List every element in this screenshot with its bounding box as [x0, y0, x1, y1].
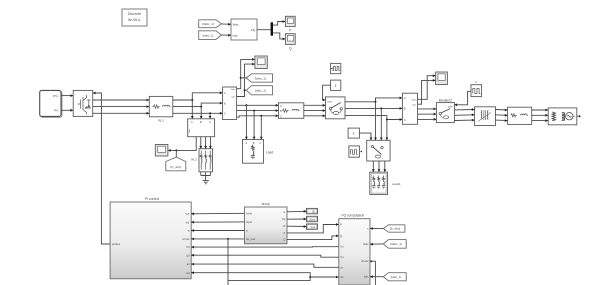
wire PQ to demux: [257, 29, 271, 31]
svg-text:Vdref: Vdref: [246, 212, 252, 215]
wire Vabc_1 to PQ subsystem: [221, 23, 231, 26]
svg-text:C: C: [224, 113, 226, 116]
wire breaker1 c to meas2 with bend down: [345, 116, 402, 121]
scope4: [436, 72, 448, 85]
wire gate g from PI control pulses: [93, 92, 110, 244]
svg-text:Q: Q: [340, 235, 342, 238]
wire PQ comp wh-dw output down: [370, 260, 375, 285]
wire bus phase C bridge to RL2: [93, 112, 150, 115]
RL3 filter branch: [191, 149, 212, 172]
wire tap phase C down to current measurement: [209, 113, 212, 119]
three-phase series RL branch 4: [508, 107, 532, 124]
svg-text:5e-06 s.: 5e-06 s.: [128, 18, 141, 22]
wire phase b meas1 to RL mid with load tap: [237, 109, 279, 112]
svg-text:Uf: Uf: [283, 225, 286, 228]
svg-text:PQ computation: PQ computation: [341, 214, 364, 218]
three-phase breaker (vertical, to Load1): [367, 140, 390, 161]
wire tap b down to breaker3: [380, 108, 383, 140]
wire wh-dw vertical down: [227, 239, 229, 285]
wire droop to display3: [287, 225, 307, 228]
Load1 block: [370, 172, 402, 194]
svg-text:C: C: [280, 115, 282, 118]
wire PV- to bridge: [61, 109, 73, 112]
wires RL4 to source: [532, 109, 549, 122]
wire demux to scope Q: [273, 33, 285, 40]
goto tag Ic_abc (up): [166, 157, 186, 171]
svg-text:Iabc: Iabc: [233, 33, 239, 37]
svg-text:[Iabc_1]: [Iabc_1]: [255, 89, 266, 93]
wire meas2 a to breaker2: [418, 108, 437, 111]
wire constant to breaker1 com: [323, 85, 331, 101]
pulse generator 1 (unconnected): [331, 63, 341, 73]
svg-text:com: com: [448, 106, 453, 109]
svg-text:pulses: pulses: [112, 242, 121, 246]
wire meas2 b to breaker2: [418, 113, 437, 116]
svg-text:Load1.: Load1.: [392, 182, 401, 186]
wire PQ port4 to PI row6: [191, 254, 339, 257]
svg-text:[Vabc_1]: [Vabc_1]: [390, 242, 402, 246]
wire PQ port6 to PI row8: [191, 271, 310, 277]
svg-text:RL2: RL2: [158, 118, 164, 122]
ground symbol: [203, 181, 209, 184]
Breaker2 label: [439, 99, 452, 103]
svg-text:Vqref: Vqref: [246, 221, 252, 224]
wire meas to RL3 phase a: [199, 137, 202, 149]
from tag Ic_abc (right): [383, 225, 405, 232]
svg-text:com: com: [327, 100, 332, 103]
svg-text:[Vabc_1]: [Vabc_1]: [202, 22, 214, 26]
svg-text:2e3: 2e3: [311, 225, 316, 229]
wire PQ port3 to PI row5: [191, 246, 339, 249]
svg-text:1: 1: [353, 132, 355, 136]
PQ measure subsystem U-PQ: [231, 19, 257, 40]
svg-text:[Iabc_1]: [Iabc_1]: [203, 33, 214, 37]
wire tap phase B down to current measurement: [200, 107, 203, 119]
source output stub: [577, 115, 581, 118]
wire load tap A: [245, 105, 248, 139]
wire meas2 Vabc to scope4: [418, 74, 436, 99]
svg-text:1: 1: [335, 84, 337, 88]
three-phase source: [548, 108, 577, 125]
wire meas to RL3 phase c: [209, 137, 212, 149]
wire Iabc_1 to PQ subsystem: [221, 34, 231, 37]
constant 1 for breaker3: [348, 128, 359, 138]
svg-text:20e3: 20e3: [309, 217, 315, 221]
display block 1: [307, 208, 318, 213]
wire Iabc signal to scope and goto tag: [237, 63, 255, 97]
svg-text:wt: wt: [340, 266, 343, 269]
svg-text:RL3: RL3: [191, 158, 197, 162]
wire bus phase B bridge to RL2: [93, 105, 150, 108]
svg-text:Breaker2: Breaker2: [439, 99, 452, 103]
wire RL mid to breaker1 phase c: [304, 114, 326, 117]
wire phase c meas1 to RL mid with load tap: [237, 114, 279, 117]
pulse generator for breaker2: [471, 80, 482, 97]
svg-text:[Iabc_1]: [Iabc_1]: [391, 275, 402, 279]
constant 1 for breaker1: [331, 80, 341, 90]
svg-text:Load: Load: [266, 151, 273, 155]
From tag Vabc_1 (top): [199, 20, 222, 28]
svg-text:Q: Q: [289, 46, 292, 50]
wires breaker3 to Load1: [372, 161, 386, 172]
three-phase current measurement (rotated): [188, 119, 215, 137]
svg-text:PV+: PV+: [53, 94, 59, 98]
svg-text:Discrete: Discrete: [128, 12, 141, 16]
svg-text:C: C: [209, 121, 211, 124]
display block 2: [307, 216, 318, 221]
svg-text:wh-dw: wh-dw: [361, 260, 368, 263]
svg-text:Iabc: Iabc: [364, 276, 369, 279]
svg-text:[Ic_abc]: [Ic_abc]: [171, 165, 182, 169]
three-phase breaker 1: [326, 97, 346, 119]
display block 3: [307, 224, 318, 229]
wire meas2 c to breaker2: [418, 118, 437, 121]
svg-text:C: C: [404, 119, 406, 122]
goto tag Vabc_1: [246, 74, 272, 82]
wires transformer to RL4: [496, 109, 508, 122]
wire droop w to PI row3: [191, 229, 244, 232]
pulse generator 2 (near breaker3): [349, 146, 362, 157]
wires RL3 to ground: [201, 172, 211, 181]
svg-text:Vabc: Vabc: [363, 243, 369, 246]
wire tap phase A down to current measurement: [191, 100, 194, 119]
PV array block: [40, 90, 62, 117]
svg-text:Q: Q: [283, 239, 285, 242]
three-phase series RL branch RL2: [149, 96, 173, 122]
wire phase a meas1 to RL mid with load tap: [237, 104, 279, 107]
wire wh-dw bottom run to PQ comp port6: [228, 276, 339, 281]
wire breaker1 a to meas2 with bend up: [345, 97, 402, 103]
from tag Iabc_1 (right): [383, 273, 406, 281]
scope3: [155, 145, 168, 157]
wire Vabc signal to scope and goto tag: [237, 58, 255, 89]
svg-text:wh-dw: wh-dw: [182, 238, 189, 241]
svg-text:w: w: [188, 230, 190, 233]
svg-text:Vabc: Vabc: [233, 23, 240, 27]
wire from tag Iabc_1 to PQ comp Iabc: [370, 275, 383, 278]
from tag Vabc_1 (right): [383, 240, 406, 249]
svg-text:[Ic_abc]: [Ic_abc]: [390, 227, 401, 231]
wire load tap C: [260, 116, 263, 140]
PQ computation subsystem: [339, 214, 370, 285]
universal bridge (IGBT inverter): [73, 90, 93, 116]
wire droop Q to PQ comp port2: [287, 235, 339, 240]
wire meas to RL3 phase b: [204, 137, 207, 149]
scope Q: [285, 34, 295, 51]
wire droop Vd to PI row1: [191, 212, 244, 215]
powergui Discrete block: [122, 9, 147, 26]
wire tap a down to breaker3: [374, 102, 377, 141]
wire RL mid to breaker1 phase a: [304, 104, 326, 107]
wire pulse2 to breaker2 com: [454, 91, 471, 106]
wire load tap B: [253, 111, 256, 140]
wire phase C RL2 to measurement1: [173, 112, 223, 115]
From tag Iabc_1 (top): [199, 31, 222, 40]
three-phase breaker 2: [436, 103, 454, 123]
wire meas2 Iabc to scope4: [418, 79, 436, 104]
wire RL mid to breaker1 phase b: [304, 109, 326, 112]
svg-text:Vq*: Vq*: [185, 221, 189, 224]
svg-text:C: C: [260, 142, 262, 145]
wire droop to display2: [287, 218, 307, 221]
wire phase A RL2 to measurement1 with bend: [173, 91, 223, 101]
wires breaker2 to transformer: [454, 108, 474, 121]
wire constant to breaker3 com: [359, 133, 372, 140]
svg-text:PV-: PV-: [54, 109, 59, 113]
wire wh-dw row4 with junction: [191, 238, 244, 241]
scope VI1: [255, 56, 267, 69]
wire tap c down to breaker3: [386, 120, 389, 141]
svg-text:dw: dw: [340, 276, 343, 279]
droop subsystem: [245, 202, 288, 244]
wire from tag Ic_abc to PQ comp s: [370, 227, 383, 230]
PI control subsystem: [110, 197, 191, 279]
wire demux to scope P: [273, 20, 285, 25]
wire Ic signal to scope3 and goto: [168, 137, 196, 157]
wire breaker1 b to meas2: [345, 107, 402, 110]
svg-text:PI control: PI control: [145, 197, 160, 201]
Load block: [243, 140, 274, 164]
three-phase series RL branch mid: [279, 103, 304, 119]
demux: [271, 22, 273, 35]
wire droop to display1: [287, 210, 307, 213]
svg-text:[Vabc_1]: [Vabc_1]: [255, 76, 267, 80]
wire bus phase A bridge to RL2: [93, 99, 150, 102]
svg-text:dw_max: dw_max: [246, 238, 256, 241]
goto tag Iabc_1: [246, 86, 272, 95]
wire droop Vq to PI row2: [191, 221, 244, 224]
scope P: [285, 16, 295, 32]
three-phase V-I measurement 2: [402, 93, 417, 124]
three-phase V-I measurement 1: [223, 87, 237, 120]
three-phase transformer: [475, 107, 496, 126]
wire droop P to PQ comp port1: [287, 223, 339, 233]
wire from tag Vabc_1 to PQ comp Vabc: [370, 243, 383, 246]
wire phase B RL2 to measurement1 with bend: [173, 102, 223, 108]
svg-text:w: w: [246, 230, 248, 233]
svg-text:Vd*: Vd*: [185, 213, 189, 216]
wire PV+ to bridge: [61, 94, 73, 97]
svg-text:PQ: PQ: [251, 28, 256, 32]
svg-text:droop: droop: [262, 202, 270, 206]
wire PQ port5 to PI row7: [191, 263, 339, 268]
